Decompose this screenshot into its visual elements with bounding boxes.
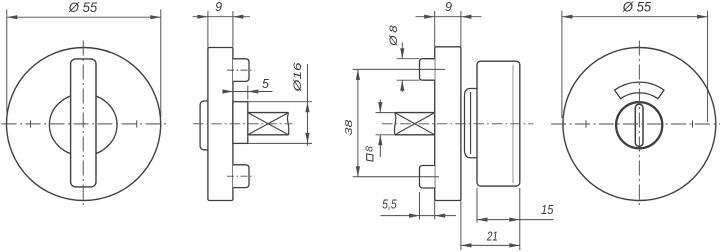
dimension square-8 line upper segment (view 3) [379,100,381,113]
dimension Ø55 arrow left (view 1) [7,15,17,19]
fixing hole tick left (view 4) [585,120,587,127]
square spindle diagonal 2 (view 3) [395,113,435,135]
dimension square-8 label (view 3) [364,146,376,161]
dimension 9 label (view 3) [445,0,452,14]
dimension square-8 arrow top (view 3) [378,102,382,113]
dimension Ø8 label (view 3) [388,24,400,47]
svg-text:Ø 8: Ø 8 [388,24,400,47]
square spindle diagonal 1 (view 2) [248,113,289,135]
dimension 15 arrow left (view 3) [477,218,488,222]
release hub circle (view 4) [616,102,662,148]
svg-text:21: 21 [486,229,498,243]
svg-text:Ø 55: Ø 55 [622,0,652,15]
dimension 15 label (view 3) [541,203,553,217]
dimension Ø55 label (view 1) [68,0,98,15]
dimension 21 line (view 3) [461,244,520,246]
knob body face contour (view 3) [512,65,514,184]
dimension 5 line (view 2) [226,91,273,93]
dimension 5,5 extension line right (view 3) [434,201,436,220]
release indicator sector (view 4) [615,82,664,99]
dimension Ø16 extension line bottom (view 2) [248,142,312,144]
inner rose circle (view 1) [49,94,117,156]
dimension 15/21 extension line right (view 3) [519,188,521,250]
dimension square-8 arrow bottom (view 3) [378,135,382,146]
dimension square-8 line lower segment (view 3) [379,135,381,157]
svg-text:38: 38 [343,120,355,136]
top snap lug (view 2) [233,59,249,82]
dimension Ø8 arrow bottom (view 3) [400,80,404,91]
dimension 5 label (view 2) [262,77,269,91]
square spindle break line (view 2) [287,113,288,135]
top fixing lug (view 3) [420,59,435,80]
dimension 38 label (view 3) [343,120,355,136]
dimension Ø8 extension line bottom (view 3) [397,79,420,81]
dimension 9 line (view 3) [416,16,482,18]
dimension 9 arrow left (view 3) [424,15,435,19]
dimension Ø8 line lower segment (view 3) [401,80,403,92]
dimension 5,5 extension line (view 3) [419,192,421,219]
knob body (view 3) [477,61,520,186]
bottom snap lug (view 2) [233,165,249,188]
rose plate side profile (view 3) [435,47,461,201]
square spindle diagonal 2 (view 2) [248,113,289,135]
dimension Ø55 arrow left (view 4) [562,15,573,19]
dimension 5,5 line (view 3) [381,215,457,217]
dimension 9 arrow left (view 2) [197,15,208,19]
svg-text:9: 9 [445,0,452,14]
dimension Ø16 arrow bottom (view 2) [305,133,309,144]
thumb-turn side bump (view 2) [200,101,209,150]
dimension 5 extension line (view 2) [247,86,249,100]
dimension Ø16 extension line top (view 2) [248,101,312,103]
svg-text:5,5: 5,5 [382,197,397,211]
dimension 5,5 arrow left (view 3) [409,214,420,218]
coin slot (view 4) [635,104,643,146]
bottom fixing lug (view 3) [420,166,435,189]
square spindle top edge (view 3) [395,112,435,114]
dimension Ø55 label (view 4) [622,0,652,15]
dimension Ø55 line (view 4) [562,16,708,18]
dimension 21 label (view 3) [486,229,498,243]
bottom snap lug centreline (view 2) [227,175,255,177]
dimension 5 arrow right (view 2) [248,89,258,93]
bottom lug centreline (view 3) [353,176,439,178]
rose plate side profile (view 2) [208,48,233,201]
svg-text:8: 8 [364,146,376,152]
vertical centreline (view 4) [638,41,640,208]
dimension Ø8 extension line top (view 3) [397,58,420,60]
square spindle break line (view 3) [394,113,395,135]
svg-text:9: 9 [215,0,222,14]
escutcheon outer circle Ø55 (view 1) [7,48,161,201]
dimension 5 arrow left (view 2) [222,89,233,93]
dimension 9 extension line right (view 3) [460,11,462,47]
dimension Ø55 arrow right (view 4) [697,15,708,19]
dimension 9 label (view 2) [215,0,222,14]
dimension 21 arrow left (view 3) [461,243,472,247]
square spindle diagonal 1 (view 3) [395,113,435,135]
fixing hole tick left (view 1) [30,120,32,127]
dimension Ø8 arrow top (view 3) [400,48,404,59]
dimension Ø16 label (view 2) [292,61,304,93]
horizontal centreline (view 4) [551,123,720,125]
square spindle top edge (view 2) [248,112,289,114]
knob neck flange (view 3) [464,89,477,158]
dimension Ø8 line upper segment (view 3) [401,43,403,59]
dimension 9 extension line left (view 3) [434,11,436,47]
square spindle bottom edge (view 3) [395,134,435,136]
dimension Ø55 extension line left (view 4) [561,11,563,118]
dimension 9 extension line left (view 2) [207,11,209,48]
dimension Ø55 extension line right (view 1) [160,10,162,118]
dimension Ø55 line (view 1) [7,16,161,18]
dimension 38 line (view 3) [357,69,359,176]
top lug centreline (view 3) [353,68,446,70]
dimension 15 arrow right (view 3) [509,218,520,222]
svg-text:Ø16: Ø16 [292,61,304,93]
dimension 21 extension line left (view 3) [460,201,462,251]
dimension Ø16 arrow top (view 2) [305,102,309,113]
svg-text:5: 5 [262,77,269,91]
dimension 21 arrow right (view 3) [509,243,520,247]
dimension 15 extension line left (view 3) [476,188,478,223]
svg-text:15: 15 [541,203,553,217]
dimension 9 arrow right (view 2) [233,15,244,19]
dimension 9 extension line right (view 2) [232,11,234,48]
dimension 9 arrow right (view 3) [461,15,472,19]
dimension Ø55 extension line left (view 1) [6,10,8,114]
thumb-turn bar (view 1) [71,59,96,187]
dimension Ø55 extension line right (view 4) [707,11,709,122]
dimension Ø16 line (view 2) [307,64,309,146]
horizontal centreline (view 3) [382,123,533,125]
dimension 5,5 label (view 3) [382,197,397,211]
fixing hole tick right (view 4) [692,120,694,127]
dimension 38 arrow top (view 3) [356,69,360,80]
knob neck inner contour (view 3) [470,92,472,154]
dimension square-8 extension bottom (view 3) [376,134,395,136]
escutcheon outer circle Ø55 (view 4) [563,48,716,201]
dimension 5,5 arrow right (view 3) [435,214,446,218]
vertical centreline (view 1) [82,41,84,208]
Ø16 boss (view 2) [233,102,248,144]
top snap lug centreline (view 2) [227,69,255,71]
svg-text:Ø 55: Ø 55 [68,0,98,15]
square spindle bottom edge (view 2) [248,134,289,136]
horizontal centreline (view 2) [193,123,293,125]
fixing hole tick right (view 1) [136,120,138,127]
dimension 38 arrow bottom (view 3) [356,166,360,177]
dimension square-8 extension top (view 3) [376,112,395,114]
dimension 9 line (view 2) [193,16,251,18]
horizontal centreline (view 1) [2,123,167,125]
dimension 15 line (view 3) [477,219,554,221]
dimension Ø55 arrow right (view 1) [150,15,161,19]
